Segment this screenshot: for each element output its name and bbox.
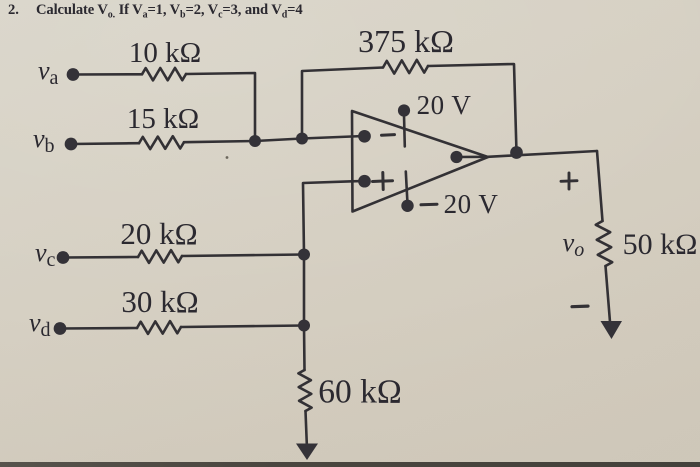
resistor R5 60k vertical zigzag bbox=[298, 370, 311, 411]
svg-text:vo: vo bbox=[563, 227, 585, 261]
ground symbol arrow (center) bbox=[296, 444, 318, 461]
wire: RL to ground arrow bbox=[606, 266, 611, 322]
wire: vb to R2 bbox=[71, 142, 139, 145]
svg-text:vc: vc bbox=[35, 238, 56, 271]
junction J1 bbox=[249, 135, 261, 147]
label minus polarity of vo (drawn) bbox=[572, 305, 588, 309]
resistor R1 10k zigzag bbox=[142, 68, 186, 81]
svg-text:20 kΩ: 20 kΩ bbox=[120, 216, 197, 251]
U1 +20V supply dot bbox=[398, 104, 410, 116]
wire: noninverting input left and down to J3, J4 bbox=[303, 181, 364, 370]
U1 plus sign at noninverting input bbox=[373, 179, 393, 183]
svg-text:60 kΩ: 60 kΩ bbox=[318, 374, 402, 411]
junction J2 inverting node bbox=[296, 133, 308, 145]
svg-text:20 V: 20 V bbox=[417, 90, 472, 120]
terminal dot vd bbox=[54, 322, 67, 335]
problem statement title bbox=[8, 2, 303, 21]
label plus polarity of vo (drawn) bbox=[561, 179, 577, 183]
terminal dot vc bbox=[57, 251, 70, 264]
resistor R3 20k zigzag bbox=[138, 250, 182, 263]
wire: RF to right corner down to output node bbox=[428, 64, 517, 153]
junction J5 output node bbox=[510, 146, 523, 159]
terminal dot va bbox=[67, 68, 80, 81]
resistor R2 15k zigzag bbox=[139, 136, 184, 149]
wire: R1 to corner, down to node J1 bbox=[186, 73, 255, 141]
U1 noninverting input pin dot bbox=[358, 175, 371, 188]
svg-text:30 kΩ: 30 kΩ bbox=[121, 284, 198, 319]
svg-text:10 kΩ: 10 kΩ bbox=[129, 37, 201, 69]
svg-text:Calculate Vo. If Va=1, Vb=2, V: Calculate Vo. If Va=1, Vb=2, Vc=3, and V… bbox=[36, 2, 303, 21]
ground symbol arrow (right) bbox=[601, 321, 623, 339]
wire: vc to R3 bbox=[63, 256, 138, 259]
wire: output lead from internal node through apex bbox=[457, 151, 598, 157]
U1 output internal dot bbox=[450, 151, 462, 163]
svg-text:2.: 2. bbox=[8, 2, 19, 18]
bottom dark table edge bar bbox=[0, 462, 700, 467]
wire: R4 to node J4 bbox=[181, 326, 304, 328]
U1 inverting input pin dot bbox=[358, 130, 371, 143]
svg-text:20 V: 20 V bbox=[444, 189, 499, 219]
junction J3 bbox=[298, 249, 310, 261]
svg-text:vd: vd bbox=[29, 308, 51, 341]
junction J4 bbox=[298, 320, 310, 332]
U1 -20V supply dot bbox=[401, 200, 413, 212]
resistor RL 50k vertical zigzag bbox=[596, 221, 612, 266]
U1 negative supply stub bbox=[406, 172, 408, 201]
resistor RF 375k zigzag bbox=[383, 60, 428, 74]
U1 minus sign at inverting input bbox=[382, 133, 395, 137]
resistor R4 30k zigzag bbox=[137, 321, 181, 334]
wire: output down right side to RL bbox=[597, 151, 603, 221]
svg-text:va: va bbox=[38, 56, 59, 89]
svg-text:50 kΩ: 50 kΩ bbox=[623, 228, 698, 261]
svg-text:15 kΩ: 15 kΩ bbox=[127, 103, 199, 135]
svg-text:vb: vb bbox=[33, 124, 55, 157]
wire: va to R1 bbox=[73, 73, 142, 76]
wire: R2 through J1 and J2 to inverting input bbox=[184, 136, 364, 142]
wire: feedback left riser J2 up bbox=[302, 68, 383, 139]
wire: R5 to ground arrow bbox=[306, 411, 307, 444]
svg-text:375 kΩ: 375 kΩ bbox=[358, 23, 454, 59]
wire: R3 to node J3 bbox=[182, 255, 304, 257]
wire: vd to R4 bbox=[60, 327, 137, 330]
minus sign of -20 V label (drawn) bbox=[421, 203, 437, 207]
photo speck bbox=[226, 156, 229, 159]
terminal dot vb bbox=[65, 138, 78, 151]
U1 positive supply stub bbox=[403, 115, 406, 147]
op-amp U1 triangle bbox=[352, 111, 488, 212]
